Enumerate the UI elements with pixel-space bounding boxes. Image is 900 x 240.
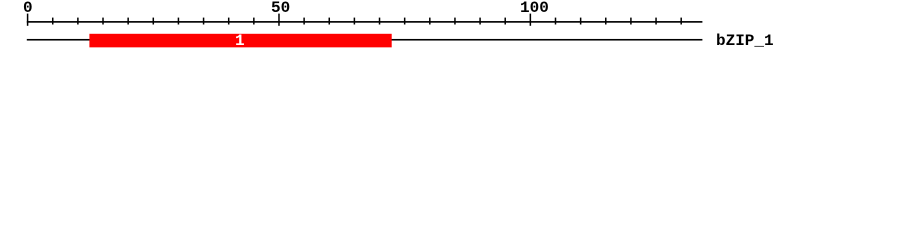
minor tick 25 bbox=[153, 18, 155, 25]
domain name bZIP_1 bbox=[716, 33, 774, 49]
minor tick 45 bbox=[253, 18, 255, 25]
major tick 50 bbox=[278, 14, 280, 26]
ruler scale bbox=[0, 0, 900, 58]
minor tick 85 bbox=[454, 18, 456, 25]
minor tick 35 bbox=[203, 18, 205, 25]
ruler axis line bbox=[27, 21, 703, 23]
sequence line bbox=[27, 39, 703, 41]
minor tick 20 bbox=[127, 18, 128, 25]
scale label 100 bbox=[520, 0, 549, 16]
minor tick 110 bbox=[580, 18, 582, 25]
minor tick 15 bbox=[102, 18, 104, 25]
minor tick 40 bbox=[228, 18, 230, 25]
major tick 100 bbox=[530, 14, 532, 26]
minor tick 10 bbox=[77, 18, 79, 25]
domain number 1 bbox=[235, 33, 245, 49]
scale label 0 bbox=[23, 0, 33, 16]
scale label 50 bbox=[271, 0, 290, 16]
minor tick 125 bbox=[655, 18, 657, 25]
minor tick 120 bbox=[630, 18, 632, 25]
minor tick 5 bbox=[52, 18, 54, 25]
minor tick 90 bbox=[479, 18, 481, 25]
minor tick 65 bbox=[354, 18, 356, 25]
minor tick 95 bbox=[504, 18, 506, 25]
minor tick 105 bbox=[555, 18, 557, 25]
domain box (red) bbox=[89, 34, 391, 48]
minor tick 70 bbox=[379, 18, 381, 25]
minor tick 60 bbox=[329, 18, 331, 25]
minor tick 115 bbox=[605, 18, 607, 25]
major tick 0 bbox=[27, 14, 29, 26]
minor tick 30 bbox=[178, 18, 180, 25]
minor tick 55 bbox=[303, 18, 305, 25]
minor tick 80 bbox=[429, 18, 431, 25]
minor tick 75 bbox=[404, 18, 406, 25]
minor tick 130 bbox=[680, 18, 682, 25]
